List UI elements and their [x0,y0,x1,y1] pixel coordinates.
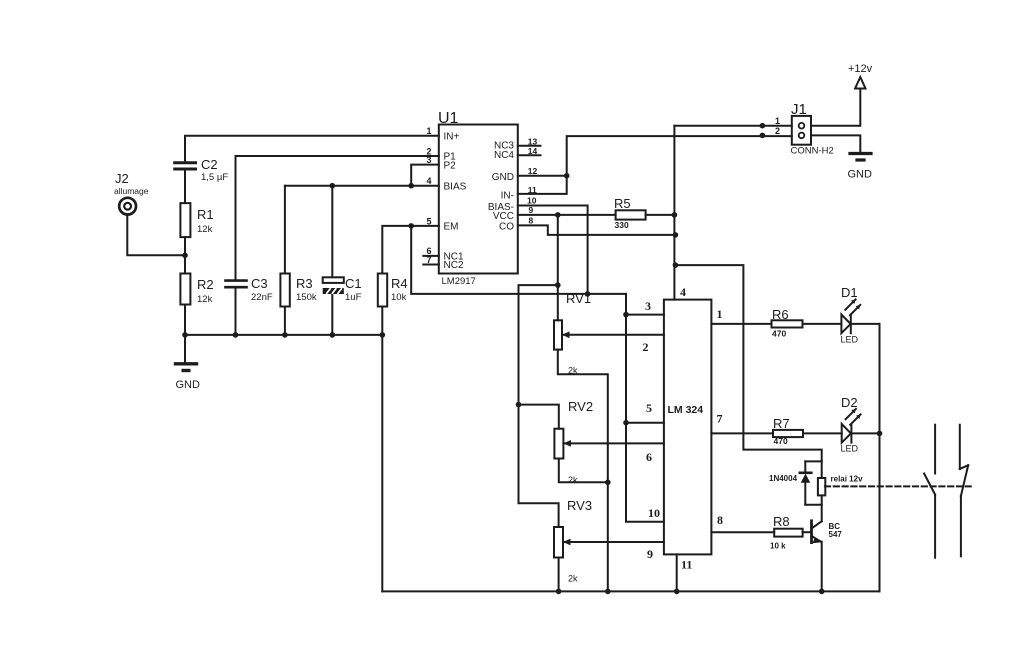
svg-text:R4: R4 [391,276,408,291]
connector J1 box [792,116,811,145]
pin 13 NC3 stub [518,145,541,147]
svg-text:9: 9 [529,205,534,215]
relay contact switch 1 [924,425,935,558]
svg-text:R6: R6 [772,307,789,322]
svg-text:allumage: allumage [114,186,149,196]
capacitor C1 bottom plate [323,288,344,294]
svg-text:22nF: 22nF [251,292,273,303]
svg-text:330: 330 [615,220,629,230]
svg-text:10: 10 [527,196,537,206]
svg-text:547: 547 [829,530,843,539]
node C3-GND rail [233,332,239,338]
svg-text:D1: D1 [841,285,858,300]
svg-text:EM: EM [444,222,459,233]
capacitor C1 [323,186,344,335]
relay coil [818,478,825,521]
svg-text:NC2: NC2 [444,260,464,271]
svg-text:IN+: IN+ [444,131,460,142]
wire pin8 LM324 to R8 [711,531,774,533]
RV2 wiper arrowhead [563,440,571,447]
resistor R5 [616,210,646,219]
ground J1 [850,154,871,161]
node VCC branch [555,212,561,218]
svg-text:470: 470 [774,436,788,446]
wire GND pin12 [518,175,567,177]
svg-text:BIAS: BIAS [444,181,467,192]
wire ground rail [185,334,382,336]
resistor R8 [774,529,802,537]
svg-text:LED: LED [841,444,859,454]
transistor Q1 BC547 [812,521,822,592]
node BIAS- to EM rail [585,291,591,297]
wire VCC branch down [557,215,559,285]
svg-text:RV3: RV3 [567,498,592,513]
potentiometer RV3 [554,527,664,591]
wire VCC pin9 to R5 [518,214,616,216]
wire R8 to Q1 base [803,531,811,533]
diode 1N4004 [800,461,812,504]
wire bottom rail [382,590,879,592]
svg-text:14: 14 [528,146,538,156]
svg-text:GND: GND [492,172,514,183]
svg-text:R7: R7 [773,416,790,431]
svg-text:4: 4 [427,176,432,186]
wire IN- pin11 to GND net up to J1 pin2 [518,136,792,194]
svg-text:12k: 12k [197,294,213,305]
node RV2 top feed [516,402,522,408]
svg-text:2k: 2k [568,366,578,376]
relay contact switch 2 [960,425,968,557]
svg-text:LM 324: LM 324 [668,404,704,416]
svg-text:470: 470 [772,329,786,339]
svg-text:R3: R3 [296,276,313,291]
potentiometer RV1 [554,320,664,591]
wire CO pin8 jog to bus [518,225,676,235]
wire RV2 top lead [519,405,559,429]
svg-text:C2: C2 [201,157,218,172]
wire J2 to R1/R2 node [127,215,185,256]
svg-text:R8: R8 [773,514,790,529]
node C1-GND rail [330,332,336,338]
IC U1 box [439,125,518,274]
svg-text:2: 2 [643,340,649,354]
dashed relay link [825,485,971,487]
svg-text:2: 2 [775,126,780,136]
node RV2 bottom column [605,480,611,486]
svg-text:R1: R1 [197,207,214,222]
node C1-BIAS line [330,183,336,189]
svg-text:12k: 12k [197,224,213,235]
svg-text:D2: D2 [841,395,858,410]
svg-text:1uF: 1uF [345,292,362,303]
svg-text:6: 6 [646,450,652,464]
wire LM324 input column pins 3,5,10 [626,294,664,522]
LED D2 [842,409,861,443]
svg-text:LED: LED [841,335,859,345]
svg-text:10k: 10k [391,292,407,303]
node emitter-bottom rail [819,589,825,595]
svg-text:IN-: IN- [501,190,514,201]
svg-text:9: 9 [647,547,653,561]
D1 arrowheads [851,299,860,309]
wire pin7 LM324 to R7 [711,432,773,434]
wire BIAS line [285,185,439,187]
svg-text:150k: 150k [296,292,317,303]
wire R5 to +12v bus [646,214,675,216]
svg-text:1: 1 [775,116,780,126]
node D2-right bus [877,431,883,437]
svg-text:R2: R2 [197,277,214,292]
resistor R7 [773,430,803,437]
node GND-IN- junction [564,173,570,179]
wire IN+ rail from C2 to U1 pin1 [185,136,439,163]
wire bus branch to relay [675,265,821,478]
svg-text:10: 10 [648,506,660,520]
node pin5 column [623,420,629,426]
node bus branch [673,262,679,268]
svg-text:CONN-H2: CONN-H2 [791,146,834,157]
node EM-R4 junction [408,223,414,229]
svg-text:C3: C3 [251,276,268,291]
resistor R1 [180,203,190,237]
node P2-BIAS junction [408,183,414,189]
resistor R2 [180,274,190,305]
pin 6 NC1 stub [423,255,439,257]
svg-text:7: 7 [427,255,432,265]
svg-text:J2: J2 [115,171,129,186]
ground [176,335,197,371]
potentiometer RV2 [554,429,664,483]
wire +12v bus [673,126,675,300]
wire branch left and down to RV2/RV3 [519,285,559,527]
LED D1 [841,299,860,333]
capacitor C2 [175,163,196,203]
svg-text:RV2: RV2 [568,399,593,414]
pin 14 NC4 stub [518,154,541,156]
svg-text:2k: 2k [568,574,578,584]
resistor R4 [378,226,439,592]
capacitor C3 [226,281,247,335]
node RV3-bottom rail [556,589,562,595]
wire P1 line to C3 [236,156,439,281]
node R4-GND rail [380,332,386,338]
wire +12v rail to J1 pin1 [674,125,791,127]
svg-text:NC4: NC4 [494,150,514,161]
node J1 pin1 wire [760,123,766,129]
svg-text:7: 7 [717,412,723,426]
wire D1 to right bus [851,323,880,325]
svg-text:11: 11 [528,185,537,195]
wire right bus down [879,324,881,592]
svg-text:8: 8 [529,215,534,225]
wire R6 to D1 [803,323,842,325]
node RV column-bottom rail [605,589,611,595]
1N4004 triangle [801,474,811,483]
svg-text:5: 5 [646,401,652,415]
RV1 wiper arrowhead [562,331,570,338]
D2 arrowheads [851,409,860,419]
wire R2 to ground rail [184,305,186,335]
svg-text:1: 1 [427,126,432,136]
wire pin11 LM324 to rail [676,554,678,591]
wire diode bottom bar [805,504,821,506]
node J1 pin2 wire [760,133,766,139]
wire RV1 top lead [557,285,559,320]
svg-text:10 k: 10 k [770,542,786,551]
wire P2 jog [411,165,439,186]
RV3 wiper arrowhead [563,539,571,546]
svg-text:8: 8 [717,513,723,527]
svg-text:CO: CO [499,221,514,232]
svg-text:U1: U1 [438,110,459,127]
node pin11-bottom rail [674,589,680,595]
svg-text:11: 11 [681,558,692,572]
svg-text:3: 3 [427,155,432,165]
svg-text:J1: J1 [791,101,807,118]
svg-text:RV1: RV1 [566,291,591,306]
wire diode top bar [805,460,821,462]
pin 7 NC2 stub [423,264,439,266]
svg-text:3: 3 [645,299,651,313]
svg-text:1N4004: 1N4004 [769,474,798,483]
wire D2 to right bus [851,432,879,434]
svg-text:R5: R5 [614,196,631,211]
wire pin1 LM324 to R6 [711,323,771,325]
svg-text:GND: GND [848,169,873,181]
Q1 emitter arrowhead [812,538,822,543]
svg-text:1: 1 [717,307,723,321]
svg-text:1,5 µF: 1,5 µF [201,172,228,183]
wire BIAS- pin10 down to EM rail [518,206,588,294]
svg-text:GND: GND [176,379,201,391]
svg-text:2k: 2k [568,475,578,485]
node R5-bus junction [672,212,678,218]
IC LM324 box [664,300,712,555]
+12v arrow [855,77,865,89]
connector J2 [119,198,136,215]
node CO-bus junction [673,232,679,238]
wire EM junction down and rail to LM324 column [411,226,626,294]
resistor R6 [772,320,803,327]
wire J1 pin2 to GND [811,135,860,152]
svg-text:P2: P2 [444,160,457,171]
svg-text:5: 5 [427,216,432,226]
svg-text:12: 12 [528,166,538,176]
svg-text:13: 13 [528,137,538,147]
svg-text:C1: C1 [345,276,362,291]
svg-text:relai 12v: relai 12v [831,475,864,484]
node RV1 top feed [555,282,561,288]
svg-text:4: 4 [680,285,686,299]
resistor R3 [280,186,289,335]
node pin3 column [623,312,629,318]
node R3-GND rail [282,332,288,338]
wire R7 to D2 [803,432,842,434]
svg-text:+12v: +12v [848,63,873,75]
node J2-R1-R2 junction [182,253,188,259]
node R2-GND rail [182,332,188,338]
svg-text:LM2917: LM2917 [442,276,476,287]
wire R1 to R2 [184,237,186,273]
wire J1 pin1 to +12v [811,89,860,126]
